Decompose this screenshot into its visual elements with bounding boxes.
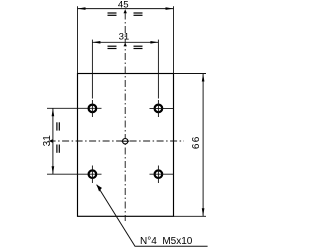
svg-text:31: 31: [119, 32, 130, 43]
svg-text:45: 45: [118, 0, 129, 10]
svg-text:N°4 M5x10: N°4 M5x10: [140, 236, 193, 247]
svg-text:31: 31: [42, 135, 53, 147]
svg-text:66: 66: [191, 136, 202, 150]
